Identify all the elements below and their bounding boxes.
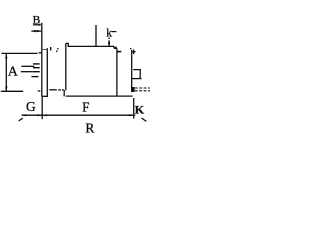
svg-text:A: A bbox=[8, 65, 19, 80]
svg-text:k: k bbox=[106, 27, 112, 40]
svg-text:F: F bbox=[82, 100, 89, 115]
svg-text:K: K bbox=[135, 103, 145, 117]
svg-text:B: B bbox=[33, 15, 41, 27]
svg-text:R: R bbox=[85, 120, 94, 135]
svg-text:G: G bbox=[26, 99, 36, 114]
